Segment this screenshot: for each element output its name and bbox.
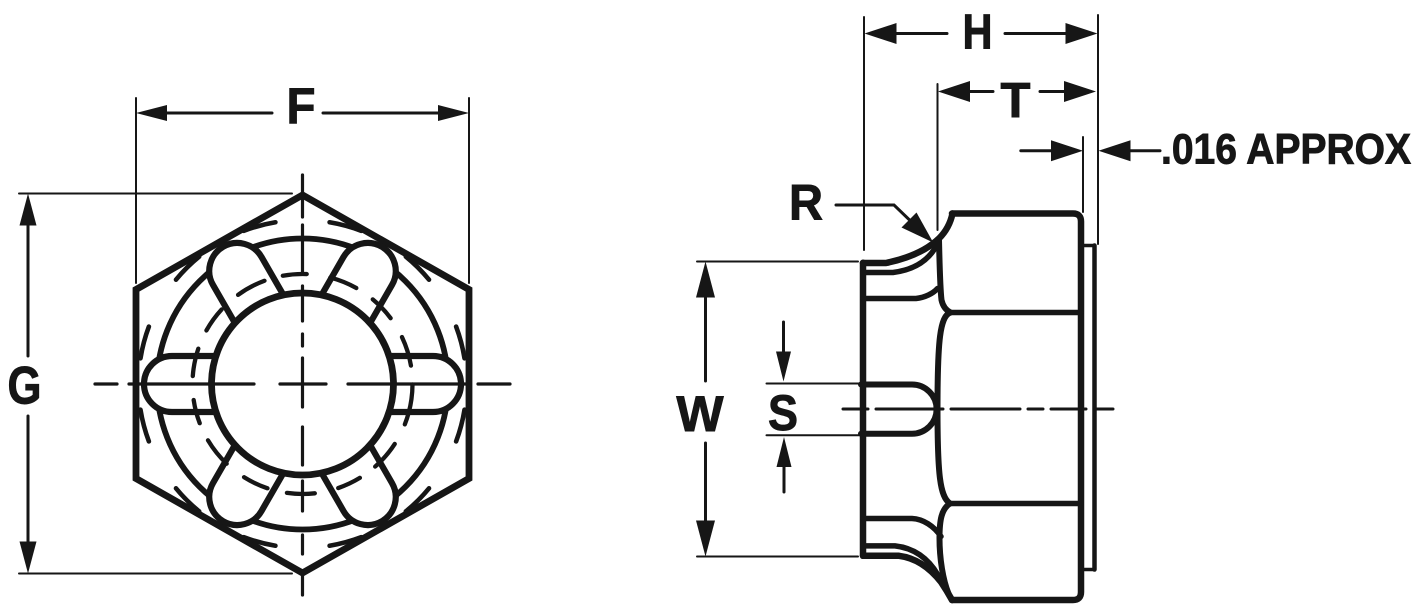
svg-text:R: R xyxy=(789,175,823,231)
svg-text:H: H xyxy=(963,6,993,60)
svg-text:W: W xyxy=(676,386,724,442)
svg-text:.016 APPROX: .016 APPROX xyxy=(1161,126,1411,174)
svg-text:F: F xyxy=(287,78,316,134)
svg-text:G: G xyxy=(8,357,42,416)
svg-text:S: S xyxy=(768,385,798,441)
svg-text:T: T xyxy=(1001,74,1031,128)
